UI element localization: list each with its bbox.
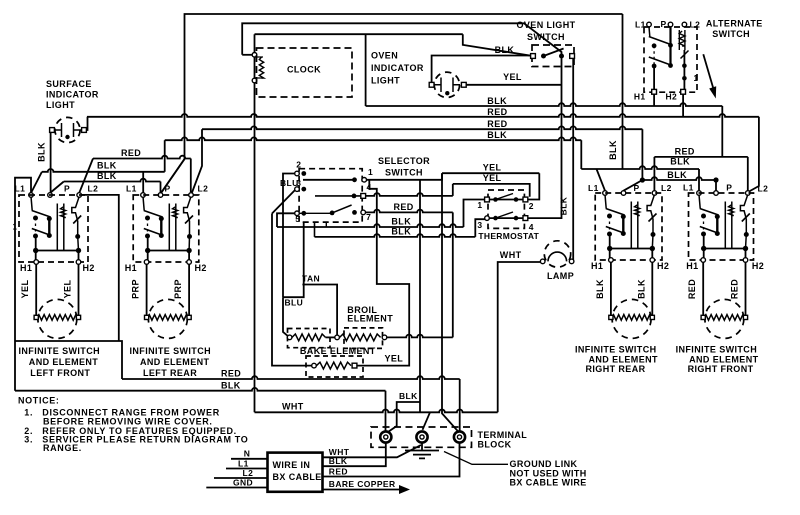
right-front switch dashed box bbox=[689, 193, 754, 260]
wire oven switch output to lamp bbox=[572, 59, 574, 262]
thermostat row1 bbox=[489, 194, 523, 202]
label right-rear P bbox=[634, 183, 640, 193]
wire L1 left-front diagonal bbox=[31, 172, 42, 193]
left-rear switch L2 blade slash bbox=[185, 216, 193, 224]
left-rear switch junction dots bbox=[145, 248, 192, 253]
alt switch coil legs bbox=[679, 30, 685, 50]
alt switch H1 terminal bbox=[652, 89, 657, 94]
label BAKE ELEMENT bbox=[300, 346, 376, 356]
BX cable box bbox=[268, 453, 323, 492]
right-front switch junction bar bbox=[704, 234, 746, 259]
svg-text:H1: H1 bbox=[634, 92, 646, 102]
selector row5 dots bbox=[301, 210, 357, 216]
wire selector 3 BLU diagonal bbox=[272, 190, 295, 213]
broil link bbox=[326, 336, 335, 338]
right-front switch element wire H1 bbox=[702, 262, 704, 317]
oven indicator light circle bbox=[434, 72, 459, 97]
clock dashed box bbox=[257, 48, 353, 97]
wire left frame to left-rear P diagonal bbox=[161, 159, 185, 193]
svg-text:H1: H1 bbox=[591, 261, 603, 271]
svg-text:WHT: WHT bbox=[500, 250, 522, 260]
wire thermostat1 feed bbox=[464, 200, 485, 228]
label notice 2 bbox=[24, 426, 237, 436]
lamp circle bbox=[544, 241, 570, 267]
wire RED bus 3 left drop to left-rear L2 bbox=[192, 129, 202, 192]
svg-text:LAMP: LAMP bbox=[547, 271, 574, 281]
svg-text:L1: L1 bbox=[238, 458, 249, 468]
svg-text:LIGHT: LIGHT bbox=[46, 100, 75, 110]
label left-rear P bbox=[165, 184, 171, 194]
svg-text:INDICATOR: INDICATOR bbox=[46, 90, 99, 100]
wire WHT to lamp bbox=[498, 262, 541, 412]
right-rear switch dashed box bbox=[595, 193, 662, 260]
svg-text:BLK: BLK bbox=[495, 45, 515, 55]
surface light circle bbox=[55, 117, 80, 142]
wire BX lead L1 bbox=[226, 468, 268, 470]
right-front switch contact dots row2 bbox=[701, 231, 720, 237]
wire selector box stub bbox=[325, 222, 327, 227]
wire BX RED to terminal 3 bbox=[323, 443, 460, 477]
label left-rear switch text 2 bbox=[143, 368, 197, 378]
alt switch H2 terminal bbox=[681, 89, 686, 94]
left-front switch contact dots row2 bbox=[33, 233, 52, 239]
right-rear switch H1 terminal bbox=[609, 258, 614, 263]
selector row5 blade bbox=[332, 205, 352, 213]
right-rear switch L2 switch bbox=[647, 195, 654, 220]
label right-front switch text 0 bbox=[676, 345, 758, 355]
svg-text:1: 1 bbox=[13, 223, 18, 232]
label thermostat 1 bbox=[477, 200, 482, 210]
wire selector1 vertical to terminal 3 bbox=[442, 173, 458, 431]
label left-rear L1 bbox=[126, 184, 137, 194]
svg-text:AND ELEMENT: AND ELEMENT bbox=[140, 357, 210, 367]
svg-text:YEL: YEL bbox=[503, 72, 522, 82]
wire selector 1 wire bbox=[367, 173, 443, 180]
right-front switch L2 contact dot bbox=[744, 232, 749, 237]
wire broil right bbox=[387, 335, 453, 338]
label SELECTOR SWITCH bbox=[378, 156, 430, 178]
right-rear switch element wire H1 bbox=[610, 262, 612, 317]
svg-text:YEL: YEL bbox=[483, 163, 502, 173]
wire selector 4 wire bbox=[366, 193, 453, 196]
broil resistor left bbox=[292, 334, 326, 341]
svg-text:RED: RED bbox=[394, 202, 414, 212]
svg-text:BLK: BLK bbox=[670, 156, 690, 166]
right-rear switch H2 terminal bbox=[650, 258, 655, 263]
right-front switch L1 terminal bbox=[697, 191, 702, 196]
svg-text:3: 3 bbox=[477, 220, 482, 230]
label left-front switch text 2 bbox=[30, 368, 90, 378]
wire right-front L1 drop bbox=[698, 169, 700, 191]
right-front switch L2 stem2 bbox=[745, 219, 748, 249]
label ALTERNATE SWITCH bbox=[706, 19, 763, 40]
right-rear switch switch blade 1 bbox=[606, 209, 625, 216]
svg-text:INFINITE SWITCH: INFINITE SWITCH bbox=[676, 345, 758, 355]
wire BLK line 1 left bbox=[42, 169, 165, 172]
label BLK to terminal bbox=[399, 391, 418, 401]
svg-text:PRP: PRP bbox=[173, 279, 183, 299]
label RED bottom bbox=[221, 369, 241, 379]
wire oven box right drop bbox=[365, 34, 367, 106]
selector row1 wire bbox=[303, 179, 355, 181]
right-front switch H1 stem bbox=[703, 249, 705, 260]
left-front switch element terminals bbox=[34, 315, 81, 319]
thermostat terminal 4 bbox=[523, 216, 528, 221]
label right-front switch text 2 bbox=[688, 364, 754, 374]
wire top frame bbox=[185, 14, 623, 159]
label alt L2 bbox=[690, 20, 701, 30]
svg-text:L2: L2 bbox=[758, 184, 769, 194]
label notice 1 bbox=[24, 408, 220, 418]
left-rear switch element terminals bbox=[145, 315, 192, 319]
alt switch blade linkage bbox=[653, 46, 655, 66]
svg-text:BAKE ELEMENT: BAKE ELEMENT bbox=[300, 346, 376, 356]
label BLK bx bbox=[329, 456, 348, 466]
wire clock coil taps bbox=[255, 57, 264, 78]
label RED fan bbox=[121, 148, 141, 158]
label left-rear switch text 0 bbox=[130, 346, 212, 356]
alt switch dots row1 bbox=[652, 43, 673, 48]
wire BLK bus 4 left connector bbox=[164, 140, 166, 172]
svg-text:P: P bbox=[64, 184, 70, 194]
wire bare copper bbox=[323, 485, 411, 494]
wire thermostat 3 link bbox=[475, 219, 484, 237]
svg-text:BLK: BLK bbox=[97, 161, 117, 171]
label alt switch position 1 bbox=[694, 74, 699, 83]
left-front switch H2 terminal bbox=[76, 260, 81, 265]
svg-text:BLK: BLK bbox=[399, 391, 418, 401]
label notice 1b bbox=[43, 417, 213, 427]
svg-text:YEL: YEL bbox=[483, 173, 502, 183]
left-rear switch dashed box bbox=[133, 195, 199, 262]
wire BLK line b left stub bbox=[314, 222, 316, 237]
oven light switch right terminal bbox=[570, 54, 575, 59]
svg-text:LEFT FRONT: LEFT FRONT bbox=[30, 368, 90, 378]
label THERMOSTAT bbox=[478, 231, 539, 241]
right-front switch P terminal bbox=[714, 191, 719, 196]
alt switch coil marks bbox=[679, 31, 685, 46]
broil resistor right bbox=[340, 334, 381, 341]
lamp right terminal bbox=[569, 259, 574, 264]
label OVEN INDICATOR LIGHT bbox=[371, 51, 424, 86]
svg-text:BLK: BLK bbox=[559, 196, 569, 215]
left-front switch contact bar bbox=[48, 219, 50, 236]
svg-text:L2: L2 bbox=[661, 183, 672, 193]
clock coil bbox=[259, 57, 263, 78]
thermostat dashed box bbox=[488, 190, 524, 228]
label YEL oven bbox=[503, 72, 522, 82]
label L1 bx bbox=[238, 458, 249, 468]
svg-text:OVEN LIGHT: OVEN LIGHT bbox=[516, 20, 575, 30]
left-rear switch L2 contact dot bbox=[187, 234, 192, 239]
selector dot 3 bbox=[301, 187, 306, 192]
wire BLK line a bbox=[277, 224, 464, 227]
svg-text:YEL: YEL bbox=[63, 280, 73, 299]
label BLU vertical bbox=[285, 298, 304, 308]
node right-front P junction bbox=[713, 177, 718, 182]
alt switch L2 blade bbox=[681, 51, 689, 59]
right-front switch H1 terminal bbox=[701, 258, 706, 263]
label YEL bake bbox=[385, 354, 404, 364]
label BLK frame drop bbox=[608, 140, 618, 160]
right-rear switch blade linkage bbox=[609, 216, 611, 234]
alt switch L2 terminal bbox=[682, 22, 687, 27]
label left-rear switch text 1 bbox=[140, 357, 210, 367]
right-rear switch element resistor bbox=[611, 315, 652, 321]
label WIRE IN BX CABLE bbox=[273, 460, 322, 482]
wire BLK mid fan line bbox=[581, 166, 699, 169]
left-front switch L1 terminal bbox=[29, 193, 34, 198]
wire selector 5 to BLK line a bbox=[277, 213, 295, 227]
svg-text:WIRE IN: WIRE IN bbox=[273, 460, 311, 470]
right-rear switch H1 stem bbox=[609, 249, 611, 260]
left-front switch L1 stem bbox=[31, 197, 32, 211]
svg-text:SWITCH: SWITCH bbox=[385, 168, 423, 178]
svg-text:SELECTOR: SELECTOR bbox=[378, 156, 430, 166]
svg-text:BARE COPPER: BARE COPPER bbox=[329, 479, 396, 489]
label BROIL ELEMENT bbox=[347, 305, 393, 324]
label YEL 2 bbox=[483, 173, 502, 183]
node right-rear P junction bbox=[640, 177, 645, 182]
wire BLK bus 4 right connector bbox=[580, 140, 582, 169]
right-front switch wire color labels bbox=[687, 279, 739, 299]
svg-text:RANGE.: RANGE. bbox=[43, 443, 82, 453]
left-front switch switch blade 1 bbox=[32, 211, 51, 218]
label BLK fan2 bbox=[97, 171, 117, 181]
left-rear switch L1 terminal bbox=[141, 193, 146, 198]
svg-text:L1: L1 bbox=[15, 184, 26, 194]
alt switch L1 terminal bbox=[647, 22, 652, 27]
label notice 3 bbox=[24, 434, 248, 444]
right-front switch contact dots row1 bbox=[701, 214, 720, 220]
svg-text:1: 1 bbox=[368, 167, 373, 177]
oven indicator light dot bbox=[445, 91, 449, 95]
label left-front switch text 1 bbox=[29, 357, 99, 367]
thermostat row2 bbox=[489, 212, 523, 220]
label bus1 BLK bbox=[487, 96, 507, 106]
left-front switch element circle bbox=[38, 299, 77, 338]
label bus4 BLK bbox=[487, 130, 507, 140]
svg-text:NOTICE:: NOTICE: bbox=[18, 396, 60, 406]
wire BLU n-top bbox=[283, 222, 304, 297]
svg-text:BLK: BLK bbox=[97, 171, 117, 181]
svg-text:BX CABLE: BX CABLE bbox=[273, 472, 322, 482]
left-front switch dashed box bbox=[19, 195, 88, 262]
label BLU selector bbox=[280, 178, 299, 188]
broil right terminal bbox=[382, 335, 387, 340]
terminal block terminal 1 bbox=[380, 431, 391, 442]
wire RED bottom bus bbox=[122, 376, 460, 379]
right-rear switch element wire H2 bbox=[651, 262, 653, 317]
left-rear switch coil legs bbox=[169, 204, 176, 251]
label YEL 1 bbox=[483, 163, 502, 173]
label WHT bx bbox=[329, 447, 350, 457]
right-front switch switch blade 2 bbox=[700, 227, 719, 234]
right-front switch element wire H2 bbox=[745, 262, 747, 317]
left-front switch wire color labels bbox=[20, 280, 72, 299]
label left-front P bbox=[64, 184, 70, 194]
svg-text:INDICATOR: INDICATOR bbox=[371, 63, 424, 73]
left-front switch contact dots row1 bbox=[33, 216, 52, 222]
svg-text:BLK: BLK bbox=[391, 227, 411, 237]
wire YEL line 1 bbox=[442, 172, 539, 174]
svg-text:RED: RED bbox=[730, 279, 740, 299]
clock terminal 2 bbox=[252, 78, 257, 83]
left-rear switch element resistor bbox=[147, 315, 190, 321]
wire alt H1 to bus1 bbox=[653, 94, 655, 106]
right-front switch junction dots bbox=[701, 246, 748, 251]
oven indicator light electrodes bbox=[434, 78, 460, 93]
surface light left terminal bbox=[50, 128, 55, 133]
svg-text:H2: H2 bbox=[657, 261, 669, 271]
svg-text:H1: H1 bbox=[20, 263, 32, 273]
label right-front switch text 1 bbox=[689, 355, 759, 365]
wire RED bottom drop to terminal 3 bbox=[459, 379, 461, 431]
svg-text:BLK: BLK bbox=[636, 279, 646, 299]
right-rear switch coil legs bbox=[631, 202, 638, 249]
svg-text:RED: RED bbox=[221, 369, 241, 379]
svg-text:YEL: YEL bbox=[20, 280, 30, 299]
label BLK line a bbox=[391, 217, 411, 227]
label thermostat 2 bbox=[529, 201, 534, 211]
left-front switch L2 switch bbox=[72, 197, 79, 222]
label BLK line b bbox=[391, 227, 411, 237]
label right-rear L1 bbox=[588, 183, 599, 193]
left-front switch coil legs bbox=[57, 204, 64, 251]
lamp filament arc bbox=[548, 252, 567, 261]
wire clock terminal 1 stub bbox=[242, 54, 252, 56]
right-rear switch H labels bbox=[591, 261, 669, 271]
left-rear switch L1 stem bbox=[143, 197, 144, 211]
lamp left terminal bbox=[540, 259, 545, 264]
wire BLK line b bbox=[315, 234, 476, 237]
svg-text:AND ELEMENT: AND ELEMENT bbox=[589, 355, 659, 365]
wire YEL vertical to thermostat 4 bbox=[528, 56, 562, 218]
left-rear switch H labels bbox=[125, 263, 207, 273]
wire RED bus 2 bbox=[87, 114, 759, 117]
svg-text:L1: L1 bbox=[588, 183, 599, 193]
left-rear switch blade linkage bbox=[147, 218, 149, 236]
wire BX lead GND bbox=[206, 487, 267, 489]
label left-rear L2 bbox=[198, 184, 209, 194]
left-front switch L2 stem2 bbox=[77, 221, 80, 251]
wire right-front P drop bbox=[715, 180, 717, 191]
left-front switch L2 blade slash bbox=[73, 216, 81, 224]
alt switch H1 wire bbox=[653, 66, 655, 90]
left-rear switch H2 terminal bbox=[187, 260, 192, 265]
label right-rear switch text 0 bbox=[575, 345, 657, 355]
oven light switch blade bbox=[544, 49, 564, 57]
svg-text:BLOCK: BLOCK bbox=[478, 440, 512, 450]
left-front switch P terminal bbox=[48, 193, 53, 198]
svg-text:H2: H2 bbox=[195, 263, 207, 273]
right-rear switch P terminal bbox=[621, 191, 626, 196]
svg-text:2: 2 bbox=[296, 160, 301, 170]
wire oven light BLK to switch bbox=[432, 56, 533, 83]
svg-text:RED: RED bbox=[329, 466, 348, 476]
svg-text:L2: L2 bbox=[198, 184, 209, 194]
wire TAN bbox=[302, 285, 337, 338]
selector terminal 7 bbox=[361, 210, 366, 215]
selector terminal 4 bbox=[361, 194, 366, 199]
svg-text:H2: H2 bbox=[666, 92, 678, 102]
wire clock box top line bbox=[255, 33, 463, 35]
selector terminal 1 bbox=[362, 178, 367, 183]
svg-text:ELEMENT: ELEMENT bbox=[347, 314, 393, 324]
label BLK oven bbox=[495, 45, 515, 55]
label WHT bottom bbox=[282, 401, 304, 411]
svg-text:7: 7 bbox=[366, 212, 371, 222]
clock terminal 1 bbox=[252, 53, 257, 58]
label alt P bbox=[661, 19, 667, 29]
wire BLK bottom drop to terminal 1 bbox=[385, 391, 387, 432]
label alt H1 H2 bbox=[634, 92, 677, 102]
left-rear switch L2 terminal bbox=[189, 193, 194, 198]
wire BLK low fan line bbox=[642, 177, 716, 180]
right-front switch element terminals bbox=[701, 315, 748, 319]
svg-text:SWITCH: SWITCH bbox=[527, 32, 565, 42]
label TAN bbox=[302, 274, 320, 284]
svg-text:5: 5 bbox=[295, 214, 300, 224]
label thermostat 4 bbox=[529, 222, 534, 232]
oven indicator light right terminal bbox=[461, 82, 466, 87]
svg-text:RED: RED bbox=[487, 107, 507, 117]
left-rear switch element circle bbox=[148, 299, 187, 338]
svg-text:BLK: BLK bbox=[595, 279, 605, 299]
wire RED fan drop to left-rear L2 bbox=[190, 159, 192, 193]
label selector 4 bbox=[367, 182, 372, 192]
svg-text:H2: H2 bbox=[752, 261, 764, 271]
wire left-rear P diagonal to frame bbox=[161, 159, 185, 193]
label alt L1 bbox=[635, 20, 646, 30]
wire WHT diagonal to terminal 2 bbox=[423, 412, 431, 430]
wire BX lead L2 bbox=[214, 477, 268, 479]
right-rear switch L1 terminal bbox=[603, 191, 608, 196]
label BLK mid fan bbox=[670, 156, 690, 166]
left-rear switch switch blade 1 bbox=[144, 211, 163, 218]
right-front switch L2 terminal bbox=[746, 191, 751, 196]
thermostat terminal 2 bbox=[523, 197, 528, 202]
svg-text:BLU: BLU bbox=[285, 298, 304, 308]
oven light switch box bbox=[532, 45, 574, 67]
wire right-rear P diagonal bbox=[624, 180, 643, 191]
right-rear switch junction bar bbox=[610, 234, 653, 259]
wire selector 2 feed bbox=[283, 174, 295, 298]
label right-rear L2 bbox=[661, 183, 672, 193]
wire YEL1 drop to thermostat 2 bbox=[528, 173, 539, 199]
wire RED fan line bbox=[93, 156, 191, 159]
right-rear switch wire color labels bbox=[595, 279, 646, 299]
svg-text:L2: L2 bbox=[88, 184, 99, 194]
left-front switch H1 stem bbox=[35, 251, 37, 262]
left-rear switch P terminal bbox=[158, 193, 163, 198]
svg-text:BLK: BLK bbox=[667, 170, 687, 180]
wire right frame drop to right fan bbox=[622, 14, 624, 169]
alt switch dots row2 bbox=[652, 63, 673, 68]
oven light switch contact 1 bbox=[541, 54, 546, 59]
label right-rear switch text 1 bbox=[589, 355, 659, 365]
label NOTICE bbox=[18, 396, 60, 406]
wire L2 left-front diagonal bbox=[79, 159, 93, 194]
svg-text:RED: RED bbox=[687, 279, 697, 299]
selector terminal 3 bbox=[295, 187, 300, 192]
ground link pointer bbox=[444, 452, 508, 465]
alternate switch arrow bbox=[703, 54, 716, 98]
svg-text:N: N bbox=[244, 449, 251, 459]
left-rear switch element wire H1 bbox=[146, 264, 148, 317]
right-rear switch junction dots bbox=[607, 246, 655, 251]
svg-text:YEL: YEL bbox=[385, 354, 404, 364]
